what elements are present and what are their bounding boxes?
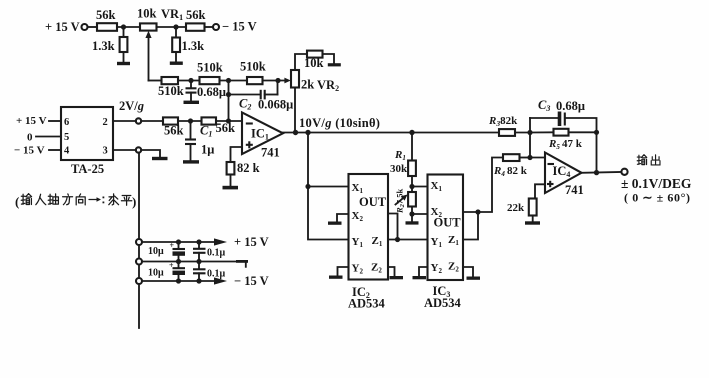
svg-text:C2: C2	[239, 97, 251, 112]
svg-text:− 15 V: − 15 V	[14, 145, 45, 157]
capacitor 0.1u a	[193, 242, 226, 262]
multiplier IC2 AD534	[348, 174, 388, 311]
wire IC1 non-inverting input to 82k	[231, 147, 243, 162]
node pin3 terminal circle	[136, 147, 141, 152]
wire R4 node to IC4 inverting input	[530, 157, 545, 159]
node power terminal 0V	[136, 259, 142, 265]
node R2 bottom junction	[409, 211, 427, 216]
wire IC2 Y2 to ground	[338, 267, 349, 276]
resistor R1 30k	[390, 149, 416, 187]
wire output row down to IC2 X1 and Y1	[305, 133, 348, 240]
label 2V/g	[119, 99, 144, 113]
svg-text:10k: 10k	[304, 56, 324, 70]
svg-text:0.1μ: 0.1μ	[207, 248, 226, 259]
label 0 pin5	[27, 132, 33, 144]
wire C2 branch left	[229, 94, 260, 96]
ground at IC2 X2	[328, 222, 342, 225]
node R1-R2 junction to IC3 X1	[409, 184, 427, 189]
wire IC2 X2 to ground	[337, 214, 349, 222]
resistor 10k b	[304, 51, 324, 70]
wire 510k c to VR2 wiper	[263, 78, 291, 84]
capacitor C1 1u	[185, 121, 214, 160]
ground at pin 3	[152, 157, 168, 160]
wire IC3 Z1 tie	[463, 212, 478, 240]
label -15V	[222, 20, 257, 34]
svg-text:Z2: Z2	[371, 262, 382, 275]
resistor 82k a	[227, 161, 260, 186]
svg-text:10μ: 10μ	[148, 246, 164, 257]
wire +15V to pin 6	[49, 120, 61, 122]
svg-text:22k: 22k	[507, 202, 525, 214]
wire 56k b to -15V terminal	[205, 26, 214, 28]
wire 2V/g terminal to 56k c	[141, 120, 163, 122]
ground at IC2 Z2	[390, 276, 404, 279]
wire 0V rail	[142, 259, 240, 264]
svg-text:510k: 510k	[240, 60, 266, 74]
wire -15V to pin 4	[49, 149, 61, 151]
svg-text:56k: 56k	[164, 124, 184, 138]
label 10V/g (10sin theta)	[299, 116, 380, 130]
resistor 510k a	[158, 77, 184, 98]
svg-text:± 0.1V/DEG: ± 0.1V/DEG	[621, 176, 692, 191]
ground under 82k a	[223, 186, 239, 190]
wire pin 3 to terminal	[113, 149, 136, 151]
wire C3 to output column	[566, 118, 599, 173]
wire +15V rail	[142, 238, 227, 245]
multiplier IC3 AD534	[424, 175, 463, 311]
svg-text:510k: 510k	[197, 61, 223, 75]
svg-text:0.68μ: 0.68μ	[197, 85, 226, 99]
svg-text:+: +	[169, 261, 174, 270]
svg-text:TA-25: TA-25	[71, 162, 104, 176]
wire 510k b to 510k c	[220, 78, 248, 83]
ground at IC2 Y2	[329, 276, 343, 279]
wire 56k a to VR1	[117, 24, 140, 29]
svg-text:3: 3	[103, 146, 108, 157]
svg-text:56k: 56k	[96, 8, 116, 22]
svg-text:741: 741	[261, 146, 280, 160]
ground under 0.68u	[184, 101, 200, 104]
resistor R5 47k	[530, 129, 597, 151]
svg-text:5: 5	[64, 132, 69, 143]
svg-text:2k: 2k	[301, 78, 314, 92]
svg-text:1μ: 1μ	[201, 143, 214, 157]
wire 10k to ground hook	[323, 54, 335, 64]
svg-text:X1: X1	[431, 180, 443, 193]
wire feedback column (510k junction down to IC1 inverting input)	[226, 81, 231, 122]
svg-text:1.3k: 1.3k	[182, 39, 205, 53]
wire 56k d to IC1 inverting input	[216, 118, 242, 123]
svg-text:10μ: 10μ	[148, 268, 164, 279]
svg-text:R27.5k: R27.5k	[395, 188, 407, 214]
ground at IC3 Z2	[467, 277, 481, 280]
svg-text:6: 6	[64, 117, 69, 128]
wire -15V rail	[142, 277, 227, 284]
trimmer R2 7.5k	[395, 187, 416, 215]
wire 0 to pin 5	[36, 136, 61, 138]
node inverting input column of IC4	[527, 118, 532, 160]
svg-text:R4 82 k: R4 82 k	[493, 165, 528, 178]
ground under 22k	[525, 221, 540, 224]
svg-text:82 k: 82 k	[237, 161, 260, 175]
wiper of VR1 (arrow down to row 2)	[145, 31, 151, 81]
resistor 22k	[507, 199, 537, 222]
ground at 10k	[328, 63, 341, 66]
wire IC2 OUT to Z1 tie	[388, 214, 398, 240]
label +-0.1V/DEG	[621, 176, 692, 191]
wire IC2 Z2 to ground	[388, 267, 395, 276]
svg-text:( 0 ∼ ± 60°): ( 0 ∼ ± 60°)	[624, 191, 691, 205]
resistor 56k b	[186, 8, 206, 31]
wire IC3 Y2 to ground	[419, 267, 428, 276]
resistor 1.3k b	[172, 27, 204, 62]
ground under R2	[406, 214, 419, 225]
wire pin 3 terminal to ground	[141, 150, 160, 157]
svg-text:C3: C3	[538, 98, 550, 113]
ground under C1	[183, 160, 199, 163]
svg-text:C1: C1	[200, 124, 212, 139]
wire VR1 to 56k b	[157, 24, 187, 29]
wire IC3 Z2 to ground	[463, 267, 473, 277]
wire wiper row to 510k a	[149, 80, 162, 82]
svg-text:OUT: OUT	[434, 216, 462, 230]
capacitor 10u b (electrolytic)	[148, 261, 185, 281]
label shuchu (output)	[637, 155, 660, 165]
svg-text:VR2: VR2	[317, 78, 339, 93]
svg-text:− 15 V: − 15 V	[222, 20, 257, 34]
svg-text:R5 47 k: R5 47 k	[548, 138, 583, 151]
wire to IC2 X1	[308, 186, 349, 188]
node power terminal +15V	[136, 239, 142, 245]
svg-text:+ 15 V: + 15 V	[16, 115, 47, 127]
node +15V terminal circle	[82, 24, 88, 30]
label (0 ~ +-60 deg)	[624, 191, 691, 205]
svg-text:0.68μ: 0.68μ	[556, 99, 585, 113]
svg-text:0: 0	[27, 132, 33, 144]
svg-text:Y2: Y2	[431, 262, 443, 275]
ground at 0V rail	[236, 260, 248, 267]
resistor R4 82k	[493, 154, 530, 178]
svg-text:X1: X1	[352, 182, 364, 195]
transducer TA-25	[61, 107, 113, 176]
resistor 56k a	[96, 8, 117, 31]
svg-text:− 15 V: − 15 V	[234, 274, 269, 288]
svg-text:741: 741	[565, 183, 584, 197]
resistor 1.3k a	[92, 27, 127, 62]
svg-text:Z1: Z1	[448, 234, 459, 247]
svg-text:OUT: OUT	[359, 195, 387, 209]
label (input axis direction: horizontal)	[15, 194, 136, 209]
wire +15V terminal to R 56k a	[88, 26, 98, 28]
svg-text:2V/g: 2V/g	[119, 99, 144, 113]
label -15V rail	[234, 274, 269, 288]
op-amp IC1 741	[242, 113, 283, 160]
ground at IC3 Y2	[413, 276, 427, 279]
svg-text:+ 15 V: + 15 V	[45, 20, 80, 34]
wire 56k c to 56k d	[178, 118, 202, 123]
resistor 510k b	[197, 61, 223, 85]
svg-text:VR1: VR1	[161, 7, 183, 22]
potentiometer VR2 2k	[291, 70, 339, 93]
ground under 1.3k b	[170, 62, 183, 65]
svg-text:+ 15 V: + 15 V	[234, 235, 269, 249]
node -15V terminal circle	[213, 24, 219, 30]
wire IC3 OUT to Z1 tie and R4	[463, 158, 503, 215]
wire C2 branch right up to 510k row	[265, 81, 278, 95]
svg-text:AD534: AD534	[424, 296, 462, 310]
svg-text:30k: 30k	[390, 163, 408, 175]
capacitor C3 0.68u	[538, 98, 585, 126]
svg-text:0.068μ: 0.068μ	[258, 98, 293, 112]
capacitor 10u a (electrolytic)	[148, 241, 185, 262]
wire pin 2 to 2V/g terminal	[113, 120, 136, 122]
svg-text:): )	[132, 194, 136, 209]
resistor 56k d	[202, 117, 236, 135]
svg-text:56k: 56k	[186, 8, 206, 22]
node power terminal -15V	[136, 278, 142, 284]
svg-text:Y1: Y1	[352, 236, 364, 249]
svg-text:Z2: Z2	[448, 261, 459, 274]
op-amp IC4 741	[545, 153, 584, 198]
svg-text:R1: R1	[394, 149, 406, 162]
svg-text:IC1: IC1	[251, 127, 269, 142]
resistor 56k c	[163, 117, 184, 137]
svg-text:+: +	[170, 241, 175, 250]
label +15V pin6	[16, 115, 47, 127]
svg-text:Y2: Y2	[352, 263, 364, 276]
svg-text:10k: 10k	[137, 7, 157, 21]
potentiometer VR1 10k	[137, 7, 183, 31]
svg-text:AD534: AD534	[348, 297, 386, 311]
label +15V rail	[234, 235, 269, 249]
label -15V pin4	[14, 145, 45, 157]
wire top feedback row to C3	[530, 117, 558, 119]
capacitor 0.68u	[186, 81, 226, 101]
label +15V	[45, 20, 80, 34]
node output terminal circle	[621, 169, 627, 175]
wire IC4 non-inverting input to 22k	[535, 184, 545, 198]
capacitor C2 0.068u	[239, 90, 293, 112]
wire IC2 Z1 to IC3 Y1	[388, 237, 428, 242]
ground under 1.3k a	[117, 62, 130, 65]
node 2V/g terminal circle	[136, 118, 141, 123]
svg-text:0.1μ: 0.1μ	[207, 269, 226, 280]
svg-text:X2: X2	[352, 210, 364, 223]
svg-text:4: 4	[64, 146, 70, 157]
svg-text:56k: 56k	[216, 121, 236, 135]
svg-text:(: (	[15, 194, 19, 209]
resistor R3 82k	[488, 115, 530, 136]
wire VR2 bottom to IC1 output node	[294, 88, 296, 133]
wire VR2 top to 10k	[295, 54, 307, 70]
wire 510k a to 510k b	[178, 78, 200, 83]
wire IC4 output to terminal	[582, 170, 622, 175]
svg-text:1.3k: 1.3k	[92, 39, 115, 53]
svg-text:R382k: R382k	[488, 115, 518, 128]
svg-text:Y1: Y1	[431, 236, 443, 249]
svg-text:510k: 510k	[158, 84, 184, 98]
wire shield column down the page	[138, 153, 140, 328]
resistor 510k c	[240, 60, 266, 85]
svg-text:2: 2	[103, 117, 108, 128]
wire output row down to R1	[411, 133, 413, 161]
wire IC1 output row	[283, 130, 499, 135]
svg-text:10V/g (10sinθ): 10V/g (10sinθ)	[299, 116, 380, 130]
svg-text:Z1: Z1	[372, 235, 383, 248]
capacitor 0.1u b	[193, 262, 226, 282]
